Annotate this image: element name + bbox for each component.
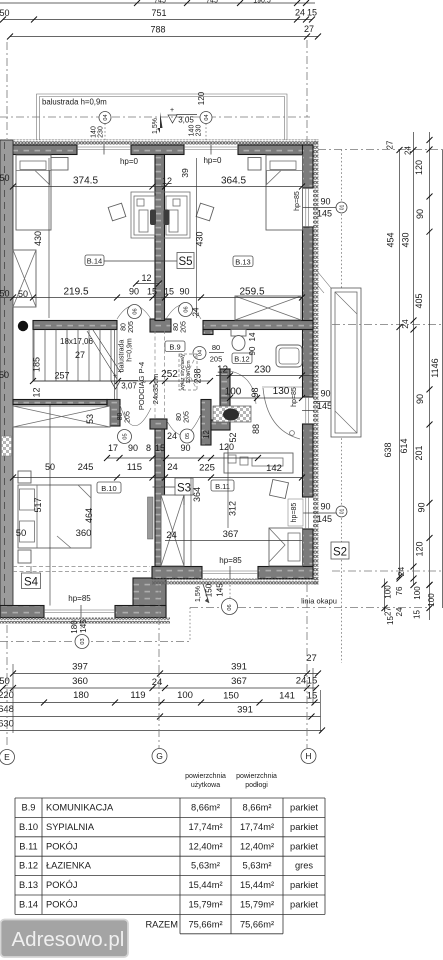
chimney box	[313, 271, 361, 437]
svg-text:100: 100	[225, 387, 242, 398]
svg-text:15: 15	[164, 287, 174, 297]
stairs treads	[33, 330, 118, 382]
wardrobe S3	[161, 495, 184, 566]
svg-text:145: 145	[216, 583, 225, 597]
svg-text:120: 120	[415, 541, 425, 556]
wall: middle horizontal party block	[150, 319, 171, 332]
svg-text:88: 88	[251, 424, 261, 434]
level mark +3,05	[168, 107, 197, 125]
svg-text:1,5%: 1,5%	[195, 586, 202, 602]
svg-text:parkiet: parkiet	[290, 822, 318, 832]
svg-text:12: 12	[162, 176, 172, 186]
balustrade text rotated	[119, 338, 134, 372]
wall: right exterior segment D	[303, 529, 314, 579]
svg-text:130: 130	[273, 386, 290, 397]
svg-text:24: 24	[296, 676, 307, 687]
svg-text:145: 145	[79, 619, 88, 633]
svg-text:230: 230	[98, 126, 105, 138]
svg-text:1146: 1146	[430, 358, 440, 377]
wall: left party wall (neighbour, cropped)	[0, 140, 13, 618]
area table	[15, 798, 325, 934]
svg-text:245: 245	[78, 462, 94, 473]
svg-text:B.9: B.9	[169, 343, 180, 352]
door dim 80/205 D6 left	[121, 321, 136, 333]
axis extension mid wall	[332, 324, 443, 326]
svg-text:27: 27	[386, 140, 395, 149]
svg-text:12: 12	[32, 387, 42, 397]
svg-text:parkiet: parkiet	[290, 803, 318, 813]
svg-text:205: 205	[125, 411, 132, 423]
svg-text:hp=0: hp=0	[120, 157, 139, 166]
svg-text:24: 24	[152, 677, 163, 688]
svg-text:90: 90	[180, 443, 190, 453]
svg-text:E: E	[4, 752, 10, 762]
bed B.13	[266, 155, 303, 230]
svg-text:12,40m²: 12,40m²	[188, 841, 222, 851]
eaves symbol O1 b	[314, 396, 347, 407]
bottom window dim 150/145	[205, 583, 225, 597]
room label B.12	[232, 353, 252, 364]
svg-text:12,40m²: 12,40m²	[240, 841, 274, 851]
door D6 B.13	[166, 303, 201, 320]
svg-text:parkiet: parkiet	[290, 880, 318, 890]
svg-text:15: 15	[386, 616, 395, 625]
svg-text:364: 364	[192, 487, 202, 502]
chair B.13	[196, 203, 214, 221]
insulation band: right exterior	[313, 140, 319, 585]
svg-text:638: 638	[383, 442, 393, 457]
svg-text:B.11: B.11	[19, 841, 37, 851]
room label B.9	[165, 341, 185, 352]
svg-text:powierzchnia: powierzchnia	[185, 773, 226, 780]
eaves dash-dot top right	[318, 149, 443, 151]
svg-text:185: 185	[32, 357, 42, 372]
svg-text:75,66m²: 75,66m²	[188, 920, 222, 930]
dim 312	[228, 444, 238, 529]
svg-text:podłogi: podłogi	[245, 782, 268, 789]
svg-text:+: +	[113, 373, 117, 380]
svg-text:90: 90	[320, 389, 330, 399]
desk B.11	[224, 453, 293, 473]
door arc D4 bathroom	[230, 371, 256, 404]
grid bubble H	[301, 749, 316, 764]
label S5 with pointer	[104, 253, 194, 269]
svg-text:B.14: B.14	[19, 900, 38, 910]
table header	[185, 773, 277, 789]
svg-text:614: 614	[399, 438, 409, 453]
door dim 80/205 D6 right	[173, 321, 188, 333]
window: right wall bathroom	[302, 397, 314, 424]
svg-text:h=0,9m: h=0,9m	[127, 338, 134, 362]
wall: corridor east stub	[201, 400, 211, 446]
svg-text:24: 24	[404, 146, 413, 155]
right dim line B 430/614	[396, 132, 417, 585]
svg-text:04: 04	[204, 114, 210, 120]
svg-text:powierzchnia: powierzchnia	[236, 773, 277, 780]
right bottom dim cluster	[332, 570, 443, 572]
svg-text:50: 50	[0, 8, 10, 18]
wall: corridor bottom (B.10 north)	[13, 400, 107, 405]
svg-text:linia okapu: linia okapu	[301, 597, 337, 606]
svg-text:100: 100	[413, 586, 422, 600]
dim 430 B.13	[195, 158, 205, 318]
svg-text:8: 8	[146, 443, 151, 453]
right dim line C windows	[386, 132, 433, 620]
eaves symbol O1 a	[314, 202, 347, 213]
svg-text:04: 04	[103, 114, 109, 120]
svg-text:27: 27	[304, 24, 314, 34]
shower B.12	[262, 387, 302, 439]
svg-text:B.13: B.13	[19, 880, 38, 890]
ceiling dashes B.10	[13, 567, 150, 572]
svg-text:75,66m²: 75,66m²	[240, 920, 274, 930]
svg-text:312: 312	[228, 501, 238, 516]
svg-text:06: 06	[184, 306, 190, 312]
balcony door symbol O4 right	[200, 112, 212, 141]
svg-text:B.9: B.9	[22, 803, 36, 813]
svg-text:17,74m²: 17,74m²	[240, 822, 274, 832]
svg-text:PODCIĄG P-4: PODCIĄG P-4	[137, 362, 146, 410]
dim 12 party wall	[133, 273, 162, 287]
svg-text:788: 788	[150, 25, 165, 35]
bathtub B.12	[276, 345, 302, 367]
wardrobe below corridor wall	[13, 406, 110, 427]
svg-text:90: 90	[320, 502, 330, 512]
svg-text:14: 14	[248, 332, 257, 341]
svg-text:15: 15	[307, 8, 317, 18]
dim 367	[165, 529, 302, 541]
desk group S5	[131, 192, 190, 238]
right dim line A 454/638	[383, 147, 403, 580]
svg-text:405: 405	[414, 293, 424, 308]
svg-text:120x70cm: 120x70cm	[186, 360, 192, 383]
svg-text:05: 05	[185, 433, 191, 439]
attic hatch label	[180, 353, 192, 390]
svg-text:15: 15	[307, 676, 318, 687]
svg-text:15,44m²: 15,44m²	[188, 880, 222, 890]
svg-text:15: 15	[307, 691, 318, 702]
balcony axis dash-dot	[0, 116, 310, 118]
attic hatch dashed	[179, 354, 197, 390]
room label B.10	[97, 482, 121, 493]
door D6 B.14	[117, 305, 151, 320]
chair B.11	[270, 480, 289, 499]
dim line rooms top 374.5 / 364.5	[10, 176, 305, 190]
svg-text:517: 517	[33, 497, 43, 512]
svg-text:397: 397	[72, 662, 88, 673]
wall: bottom exterior left unit segment B	[115, 606, 166, 618]
bottom window symbol O6	[222, 585, 238, 615]
wall: middle horizontal segment bathroom	[203, 321, 313, 330]
extension stubs bottom right	[13, 664, 321, 733]
room label B.11	[211, 480, 234, 491]
bed B.14	[16, 155, 51, 230]
bed B.10	[18, 485, 91, 548]
svg-text:205: 205	[210, 355, 223, 364]
svg-text:hp=0: hp=0	[203, 156, 222, 165]
grid axis dashes inside left wall	[4, 142, 6, 616]
svg-text:15,44m²: 15,44m²	[240, 880, 274, 890]
chair B.14	[108, 203, 126, 221]
svg-text:364.5: 364.5	[221, 176, 246, 187]
svg-text:367: 367	[223, 529, 239, 540]
svg-text:219.5: 219.5	[63, 287, 88, 298]
svg-text:24: 24	[400, 319, 410, 329]
watermark Adresowo.pl	[1, 920, 129, 958]
svg-text:80: 80	[121, 323, 128, 331]
boxed hp=85 window B.11	[288, 499, 303, 526]
svg-text:03: 03	[80, 638, 86, 644]
door dim 80/205 D4	[209, 343, 224, 364]
svg-text:50: 50	[0, 173, 10, 183]
wall: interior party vertical lower	[155, 419, 165, 617]
wall: right exterior segment B	[303, 227, 314, 397]
svg-text:100: 100	[177, 690, 193, 701]
dim 252 corridor	[30, 369, 213, 384]
svg-text:454: 454	[386, 232, 396, 247]
svg-text:142: 142	[266, 463, 282, 474]
svg-text:15,79m²: 15,79m²	[188, 900, 222, 910]
svg-text:430: 430	[33, 231, 43, 246]
wardrobe B.13	[235, 296, 301, 320]
window: bottom right unit	[202, 566, 258, 579]
shelf B.13	[248, 158, 261, 171]
window: right wall W1	[302, 188, 314, 227]
shelf B.14	[51, 158, 68, 171]
svg-text:90: 90	[128, 443, 138, 453]
svg-text:POKÓJ: POKÓJ	[46, 880, 78, 890]
level mark +3,07	[111, 373, 138, 391]
window dim 90/145 W1	[294, 191, 332, 218]
wall: middle horizontal segment stairs-B.14	[33, 321, 117, 330]
wall: bottom exterior left unit segment A	[0, 606, 44, 618]
bottom window dim 180/145	[70, 619, 88, 634]
svg-text:parkiet: parkiet	[290, 900, 318, 910]
svg-text:15,79m²: 15,79m²	[240, 900, 274, 910]
wall: right exterior segment A	[303, 145, 314, 188]
svg-text:27: 27	[75, 350, 85, 360]
svg-text:360: 360	[76, 528, 92, 539]
svg-text:225: 225	[199, 463, 215, 474]
eaves dash-dot bottom	[190, 607, 428, 609]
wall: party cap at corridor	[150, 419, 167, 429]
svg-text:145: 145	[317, 514, 332, 524]
svg-text:100: 100	[427, 593, 436, 607]
window: top wall B.13 balcony door	[184, 145, 238, 155]
bottom dim row 397/391	[10, 653, 321, 677]
bottom dim row 630	[0, 719, 325, 734]
svg-text:15: 15	[413, 610, 422, 619]
svg-text:B.14: B.14	[87, 257, 102, 266]
dim chain doors row y297	[0, 287, 305, 301]
svg-text:360: 360	[72, 676, 88, 687]
svg-text:hp=85: hp=85	[291, 503, 298, 523]
svg-text:252: 252	[161, 369, 178, 380]
svg-text:3,07: 3,07	[121, 382, 137, 391]
svg-text:KOMUNIKACJA: KOMUNIKACJA	[46, 803, 114, 813]
svg-text:259.5: 259.5	[239, 287, 264, 298]
svg-text:367: 367	[231, 676, 247, 687]
label S2	[331, 542, 349, 559]
svg-text:1,5%: 1,5%	[152, 118, 159, 134]
svg-text:52: 52	[228, 432, 238, 442]
svg-text:201: 201	[414, 445, 424, 460]
svg-text:17,74m²: 17,74m²	[188, 822, 222, 832]
svg-text:hp=85: hp=85	[219, 556, 242, 565]
svg-text:S2: S2	[333, 547, 347, 559]
svg-text:230: 230	[196, 125, 203, 137]
svg-text:90: 90	[179, 287, 189, 297]
insulation band: bottom right unit	[152, 579, 319, 585]
wall: interior party vertical upper (B.14/B.13)	[155, 155, 165, 321]
wall: bottom exterior right unit segment B	[258, 567, 313, 579]
svg-text:G: G	[156, 751, 163, 761]
svg-text:119: 119	[130, 690, 145, 701]
svg-text:B.12: B.12	[19, 861, 38, 871]
grid line E bottom	[6, 625, 8, 748]
svg-text:hp=85: hp=85	[68, 594, 91, 603]
wall: bathroom southwest connector	[211, 420, 230, 430]
svg-text:S5: S5	[178, 256, 192, 268]
svg-text:90: 90	[415, 209, 425, 219]
svg-text:115: 115	[127, 462, 142, 473]
stairs balustrade	[115, 330, 118, 400]
svg-text:39: 39	[180, 168, 190, 178]
right dim line D 1146	[430, 150, 443, 608]
wall: party bottom chimney block	[133, 578, 166, 617]
svg-text:90: 90	[129, 287, 139, 297]
svg-text:01: 01	[340, 509, 346, 515]
svg-text:gres: gres	[295, 861, 313, 871]
svg-text:257: 257	[54, 371, 69, 381]
wall: corridor west stub	[107, 400, 120, 427]
insulation band: bottom left unit	[0, 618, 170, 624]
door dim 80/205 D5 right	[176, 411, 191, 423]
dim 430 B.14	[33, 158, 49, 318]
svg-text:17: 17	[108, 443, 118, 453]
eaves dotted step	[189, 608, 191, 642]
eaves dotted vertical right	[341, 150, 343, 664]
svg-text:50: 50	[16, 528, 27, 539]
svg-text:140: 140	[91, 126, 98, 138]
svg-text:205: 205	[128, 321, 135, 333]
svg-text:205: 205	[181, 321, 188, 333]
dimension chain: top row 1 (cropped)	[154, 0, 271, 5]
svg-text:205: 205	[184, 411, 191, 423]
svg-text:12: 12	[141, 273, 151, 283]
table rows	[19, 803, 318, 930]
dim line 230	[216, 365, 313, 379]
dimension chain: top row 788	[7, 24, 321, 40]
svg-text:B.13: B.13	[235, 258, 250, 267]
svg-text:745: 745	[154, 0, 166, 5]
svg-text:50: 50	[0, 370, 9, 380]
bed B.11	[269, 528, 303, 566]
room label B.14	[85, 255, 104, 266]
svg-text:374.5: 374.5	[73, 176, 98, 187]
door D5 B.10	[118, 405, 152, 444]
svg-text:90: 90	[248, 346, 257, 355]
dim chain corridor y477	[10, 462, 305, 481]
bottom window symbol O3	[75, 612, 89, 649]
eaves symbol O1 c	[314, 506, 347, 517]
grid line H (top)	[306, 40, 308, 144]
svg-text:POKÓJ: POKÓJ	[46, 841, 78, 851]
svg-text:S3: S3	[177, 483, 191, 495]
wall: top exterior segment A	[0, 145, 77, 155]
svg-text:120: 120	[414, 160, 424, 175]
svg-text:5,63m²: 5,63m²	[243, 861, 272, 871]
door dim 80/205 D5 left	[117, 411, 132, 423]
svg-text:parkiet: parkiet	[290, 841, 318, 851]
svg-text:06: 06	[133, 308, 139, 314]
svg-text:50: 50	[0, 676, 10, 687]
svg-text:80: 80	[176, 413, 183, 421]
dim row 100/98/130	[220, 386, 305, 401]
window patch in left wall	[2, 436, 12, 456]
svg-text:50: 50	[0, 289, 10, 299]
svg-text:145: 145	[317, 209, 332, 219]
svg-text:B.10: B.10	[101, 484, 116, 493]
dim 90 14 toilet	[248, 332, 257, 355]
balcony outline	[37, 94, 288, 140]
balcony door symbol O4 left	[99, 112, 111, 141]
dim chain corridor y458	[104, 442, 261, 461]
svg-text:24: 24	[395, 607, 404, 616]
eaves dash-dot bottom left	[0, 641, 190, 643]
room label B.13	[233, 256, 253, 267]
beam P-4 dashed outline	[155, 330, 165, 418]
svg-text:użytkowa: użytkowa	[191, 782, 220, 789]
svg-text:430: 430	[401, 232, 411, 247]
grid line E (top)	[6, 42, 8, 139]
svg-text:50: 50	[18, 289, 28, 299]
toilet B.12	[231, 330, 246, 351]
door leaf B.10	[148, 497, 154, 539]
balcony slope arrow 1,5%	[152, 112, 163, 134]
svg-text:76: 76	[395, 586, 404, 595]
grid bubble G	[152, 749, 167, 764]
svg-text:391: 391	[237, 705, 253, 716]
svg-text:27: 27	[306, 653, 317, 664]
svg-text:06: 06	[227, 604, 233, 610]
svg-text:464: 464	[84, 508, 94, 523]
svg-text:391: 391	[231, 662, 247, 673]
wall: bottom exterior right unit segment A	[152, 567, 202, 579]
svg-text:8,66m²: 8,66m²	[243, 803, 272, 813]
insulation band: top exterior	[0, 140, 318, 146]
grid line G bottom	[158, 585, 160, 748]
door symbol D4	[193, 347, 206, 360]
balcony window dim 140/230 right	[189, 125, 203, 137]
wall: top exterior segment C (corner)	[238, 145, 313, 155]
svg-text:01: 01	[340, 205, 346, 211]
wall: top exterior segment B	[131, 145, 184, 155]
window: right wall B.11	[302, 497, 314, 529]
svg-text:80: 80	[173, 323, 180, 331]
svg-text:190,5: 190,5	[253, 0, 271, 5]
svg-text:15: 15	[155, 443, 165, 453]
wardrobe B.14	[13, 250, 36, 307]
grid bubble E	[0, 750, 15, 765]
svg-text:230: 230	[254, 365, 271, 376]
dim 364	[191, 478, 202, 567]
svg-text:430: 430	[195, 231, 205, 246]
svg-text:180: 180	[70, 620, 79, 634]
window dim 90/145 B.11	[317, 502, 332, 525]
svg-text:RAZEM: RAZEM	[145, 920, 178, 930]
wall: bathroom west	[220, 369, 230, 420]
